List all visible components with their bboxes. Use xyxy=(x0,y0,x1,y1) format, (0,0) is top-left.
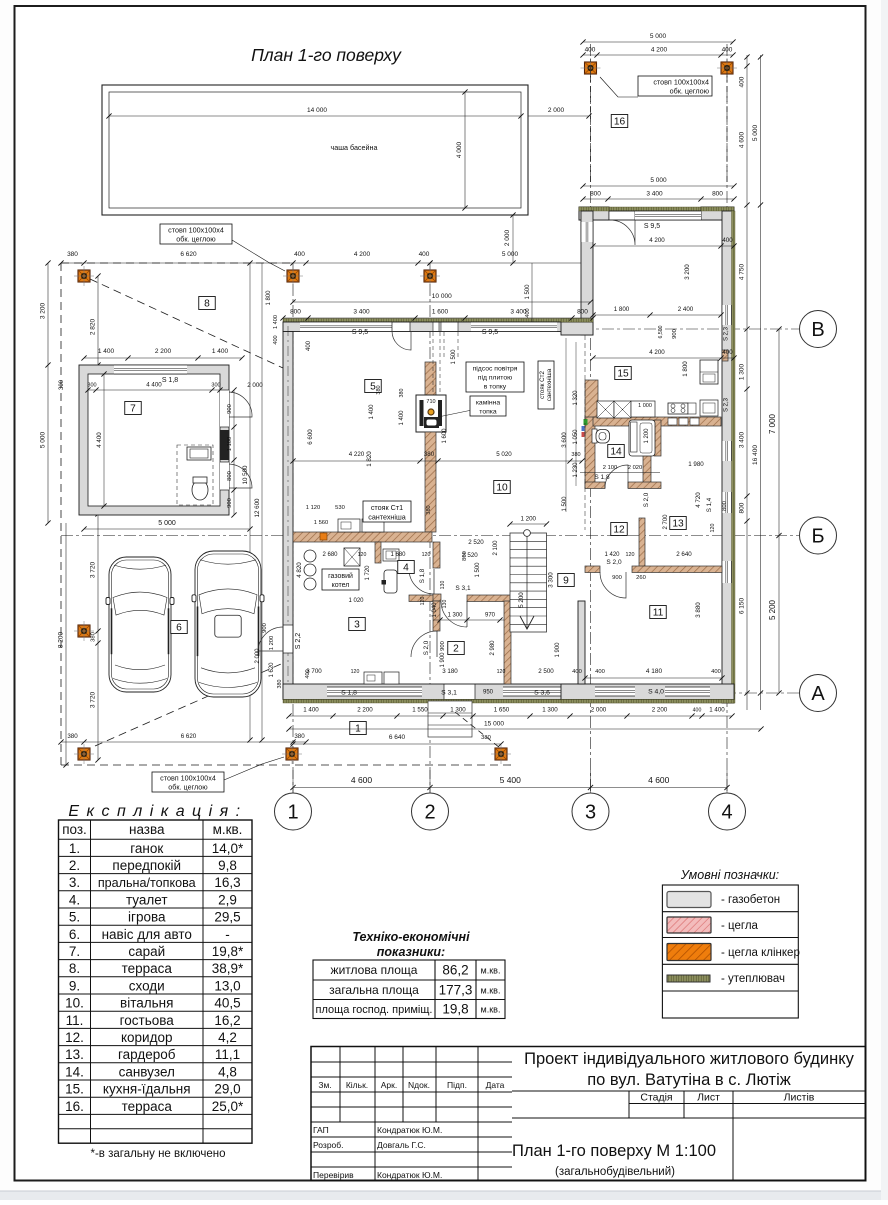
svg-text:поз.: поз. xyxy=(62,822,87,837)
svg-text:5 000: 5 000 xyxy=(650,33,667,40)
wall 14 right vertical upper xyxy=(654,420,661,456)
svg-text:терраса: терраса xyxy=(122,1099,173,1114)
wall 14-13 lower xyxy=(643,455,651,488)
fireplace unit xyxy=(416,395,446,432)
stairs newel circle xyxy=(524,530,531,537)
svg-text:1 400: 1 400 xyxy=(212,348,229,355)
svg-text:900: 900 xyxy=(227,404,233,414)
svg-text:16: 16 xyxy=(614,117,626,128)
svg-text:10 500: 10 500 xyxy=(242,465,249,484)
svg-text:6 620: 6 620 xyxy=(180,251,197,258)
svg-text:В: В xyxy=(811,319,824,341)
svg-text:4.: 4. xyxy=(69,892,80,907)
svg-text:Лист: Лист xyxy=(697,1092,720,1104)
dim 15 000 row xyxy=(289,728,761,730)
right dim 7000 5200 xyxy=(778,329,780,693)
svg-text:25,0*: 25,0* xyxy=(212,1099,244,1114)
svg-text:кухня-їдальня: кухня-їдальня xyxy=(103,1082,191,1097)
svg-text:14 000: 14 000 xyxy=(307,107,327,114)
column top left terrace xyxy=(74,266,94,286)
svg-text:3 720: 3 720 xyxy=(90,691,97,708)
svg-text:800: 800 xyxy=(290,309,301,316)
fireplace flue wall lower xyxy=(425,432,436,532)
svg-text:3: 3 xyxy=(585,802,596,824)
veranda 16 dashed outline xyxy=(590,76,592,185)
svg-text:1 400: 1 400 xyxy=(709,707,725,714)
stove room15 xyxy=(668,403,688,414)
pool dim 14 000 xyxy=(109,115,521,117)
stairs dim 1 200 xyxy=(510,523,547,525)
svg-text:стовп 100х100х4: стовп 100х100х4 xyxy=(653,78,709,87)
right top wall corner piers xyxy=(579,207,609,220)
svg-text:2 000: 2 000 xyxy=(504,229,511,246)
svg-text:8 200: 8 200 xyxy=(58,631,65,648)
top wall window 2 xyxy=(471,322,557,332)
bottom wall door S3.1 xyxy=(444,685,475,700)
svg-text:гардероб: гардероб xyxy=(118,1047,176,1062)
svg-text:15: 15 xyxy=(617,369,629,380)
svg-text:4,2: 4,2 xyxy=(218,1030,237,1045)
bottom wall left section xyxy=(283,684,593,700)
svg-text:1 820: 1 820 xyxy=(366,451,373,467)
column stovp veranda left xyxy=(581,58,601,78)
svg-text:вітальня: вітальня xyxy=(120,996,173,1011)
svg-text:S 3,1: S 3,1 xyxy=(441,690,457,697)
saray black jamb xyxy=(220,430,229,460)
svg-text:970: 970 xyxy=(485,613,496,619)
svg-text:800: 800 xyxy=(227,471,233,481)
svg-text:300: 300 xyxy=(87,383,96,389)
svg-text:туалет: туалет xyxy=(126,892,168,907)
room3 kitchen counters bottom xyxy=(364,672,382,684)
svg-text:-: - xyxy=(225,927,230,942)
toilet fixtures room4 xyxy=(383,549,399,561)
svg-text:380: 380 xyxy=(424,451,435,458)
svg-text:S 2,3: S 2,3 xyxy=(724,397,730,412)
top wall window 1 xyxy=(300,322,392,332)
svg-text:400: 400 xyxy=(722,237,733,244)
svg-text:10: 10 xyxy=(496,483,508,494)
svg-text:S 3,1: S 3,1 xyxy=(455,585,471,592)
svg-text:Перевірив: Перевірив xyxy=(313,1170,354,1180)
toilet room 4 walls xyxy=(375,542,381,563)
saray door arc S2.9 xyxy=(229,392,252,417)
svg-text:навіс для авто: навіс для авто xyxy=(102,927,192,942)
svg-text:1 200: 1 200 xyxy=(269,636,275,651)
svg-text:1 040: 1 040 xyxy=(432,602,438,618)
bottom wall window S1.8 xyxy=(327,687,422,696)
dim row 4220 380 5020 380 xyxy=(293,460,582,462)
svg-text:400: 400 xyxy=(572,669,582,675)
fridge room15 xyxy=(700,360,718,384)
svg-text:показники:: показники: xyxy=(377,945,445,959)
stoyak st2 label xyxy=(538,361,554,409)
room3 door arc S2.0 xyxy=(411,631,437,657)
svg-text:S 2,0: S 2,0 xyxy=(606,559,622,566)
svg-text:4 180: 4 180 xyxy=(646,668,663,675)
svg-text:1 900: 1 900 xyxy=(440,652,446,668)
svg-text:6,500: 6,500 xyxy=(658,325,664,338)
column top axis1 xyxy=(283,266,303,286)
terrace diagonal dashed bottom xyxy=(95,660,290,746)
explication table xyxy=(59,820,253,1143)
green mark shaft xyxy=(584,419,588,425)
right top wall window xyxy=(635,211,701,220)
svg-text:S 2,0: S 2,0 xyxy=(643,492,650,507)
svg-text:А: А xyxy=(811,683,825,705)
saray sink xyxy=(187,447,211,460)
counter right room15 xyxy=(700,400,718,416)
svg-text:2 020: 2 020 xyxy=(628,465,643,471)
svg-text:Умовні позначки:: Умовні позначки: xyxy=(680,868,779,882)
room 16 number xyxy=(611,115,628,128)
svg-text:1 600: 1 600 xyxy=(442,428,448,444)
svg-text:4 200: 4 200 xyxy=(354,251,371,258)
right bottom window 2 xyxy=(665,687,710,696)
bottom wall olive band xyxy=(283,700,734,704)
dim row 6620 bottom xyxy=(61,741,306,743)
room 15 number xyxy=(615,367,632,380)
room 2 number xyxy=(448,642,465,655)
svg-text:м.кв.: м.кв. xyxy=(481,966,501,976)
svg-text:1 400: 1 400 xyxy=(369,404,375,420)
svg-text:3.: 3. xyxy=(69,875,80,890)
svg-text:2 200: 2 200 xyxy=(357,707,373,714)
room15 dims xyxy=(593,245,734,247)
svg-text:2 700: 2 700 xyxy=(663,514,669,530)
svg-text:S 2,3: S 2,3 xyxy=(724,326,730,341)
right wall brick block xyxy=(722,350,728,361)
svg-text:40,5: 40,5 xyxy=(214,996,240,1011)
svg-text:ігрова: ігрова xyxy=(128,910,166,925)
terrace dim row top 380 6620 400 4200 400 xyxy=(61,262,430,264)
svg-text:(загальнобудівельний): (загальнобудівельний) xyxy=(555,1166,675,1178)
vent boxes in wall xyxy=(668,418,677,425)
svg-text:План 1-го поверху: План 1-го поверху xyxy=(251,45,402,65)
svg-text:1 650: 1 650 xyxy=(494,707,510,714)
label stovp top left xyxy=(160,224,232,244)
svg-text:5 000: 5 000 xyxy=(650,177,667,184)
room 13 number xyxy=(670,517,687,530)
label stovp 100x100x4 top right xyxy=(638,76,712,96)
svg-text:S 1,8: S 1,8 xyxy=(419,568,426,583)
svg-text:16,3: 16,3 xyxy=(214,875,240,890)
svg-text:1 500: 1 500 xyxy=(525,284,531,300)
svg-text:сарай: сарай xyxy=(128,944,165,959)
svg-text:1 600: 1 600 xyxy=(432,309,449,316)
pool basin outer xyxy=(102,85,528,215)
svg-text:м.кв.: м.кв. xyxy=(213,822,243,837)
svg-text:S 9,5: S 9,5 xyxy=(644,223,660,230)
svg-text:терраса: терраса xyxy=(122,961,173,976)
svg-text:380: 380 xyxy=(294,733,305,740)
room 14 number xyxy=(608,445,625,458)
right wall window 3 xyxy=(722,492,732,513)
svg-text:3 400: 3 400 xyxy=(353,309,370,316)
right section bottom wall xyxy=(561,684,734,700)
svg-text:19,8*: 19,8* xyxy=(212,944,244,959)
room11 door arc xyxy=(600,572,626,598)
partition room3-room2 mid xyxy=(433,594,441,601)
svg-text:1 300: 1 300 xyxy=(447,613,463,619)
svg-text:стовп 100х100х4: стовп 100х100х4 xyxy=(168,226,224,235)
svg-text:5 400: 5 400 xyxy=(500,775,522,785)
svg-text:3 880: 3 880 xyxy=(695,602,702,618)
svg-text:газовий: газовий xyxy=(328,572,353,580)
carport number 6 xyxy=(171,621,188,634)
svg-text:4 600: 4 600 xyxy=(351,775,373,785)
svg-text:2 000: 2 000 xyxy=(247,382,263,389)
svg-text:16,2: 16,2 xyxy=(214,1013,240,1028)
axis circle 2 xyxy=(412,793,449,830)
svg-text:6 600: 6 600 xyxy=(307,429,314,445)
svg-text:- цегла клінкер: - цегла клінкер xyxy=(721,947,800,959)
svg-text:800: 800 xyxy=(577,309,588,316)
svg-text:2 400: 2 400 xyxy=(678,306,694,313)
svg-text:4 200: 4 200 xyxy=(649,237,665,244)
gazoviy kotel label xyxy=(322,569,359,590)
svg-text:7: 7 xyxy=(130,404,136,415)
room 5 number xyxy=(365,380,382,393)
svg-text:5 200: 5 200 xyxy=(768,599,777,620)
svg-text:950: 950 xyxy=(483,690,494,696)
svg-text:коридор: коридор xyxy=(121,1030,173,1045)
kitchen cabinets X room15 xyxy=(597,401,614,418)
svg-text:Е к с п л і к а ц і я :: Е к с п л і к а ц і я : xyxy=(68,803,241,820)
axis line 4 vertical xyxy=(726,44,728,793)
saray door arc S1.8 lower xyxy=(229,464,252,488)
dim row above saray 1400 2200 1400 xyxy=(84,357,242,359)
svg-text:S 3,6: S 3,6 xyxy=(534,690,550,697)
svg-text:1 560: 1 560 xyxy=(314,520,329,526)
svg-text:Проект індивідуального житлово: Проект індивідуального житлового будинку xyxy=(524,1050,855,1068)
svg-text:380: 380 xyxy=(481,735,491,741)
svg-text:2 640: 2 640 xyxy=(676,551,692,558)
svg-text:1 800: 1 800 xyxy=(266,290,272,306)
svg-text:1 200: 1 200 xyxy=(644,428,650,444)
svg-text:пральна/топкова: пральна/топкова xyxy=(98,876,196,890)
kaminna topka box xyxy=(470,396,506,416)
svg-text:3 300: 3 300 xyxy=(548,572,555,588)
svg-text:S 1,4: S 1,4 xyxy=(706,497,713,512)
svg-text:120: 120 xyxy=(710,524,716,533)
shaft wall left of 14 xyxy=(585,380,598,418)
svg-text:530: 530 xyxy=(335,505,345,511)
svg-text:2 980: 2 980 xyxy=(490,640,496,656)
dim 1500 400 between pool and house xyxy=(531,263,533,322)
svg-text:1 980: 1 980 xyxy=(688,461,704,468)
svg-text:10 000: 10 000 xyxy=(432,293,452,300)
svg-text:710: 710 xyxy=(426,399,435,405)
svg-text:2: 2 xyxy=(453,644,459,655)
svg-text:400: 400 xyxy=(419,251,430,258)
terrace number 8 xyxy=(199,297,216,310)
wall 12/13 vertical xyxy=(639,518,645,567)
svg-text:5 000: 5 000 xyxy=(752,124,759,141)
svg-text:Б: Б xyxy=(811,526,824,548)
svg-text:400: 400 xyxy=(273,335,279,344)
dims 10500 12600 xyxy=(249,263,251,740)
svg-text:2,9: 2,9 xyxy=(218,892,237,907)
svg-text:2: 2 xyxy=(424,802,435,824)
column mid left xyxy=(74,621,94,641)
right wall window 2 xyxy=(722,441,732,461)
dim 5 000 top axis2-3 xyxy=(430,262,590,264)
svg-text:2 200: 2 200 xyxy=(652,707,668,714)
column bottom x501 xyxy=(491,744,511,764)
svg-text:3 720: 3 720 xyxy=(90,561,97,578)
svg-text:2 100: 2 100 xyxy=(603,465,618,471)
svg-text:ганок: ганок xyxy=(130,841,163,856)
left wall window xyxy=(581,222,593,242)
svg-text:1 800: 1 800 xyxy=(614,306,630,313)
svg-text:- цегла: - цегла xyxy=(721,920,759,932)
svg-text:11,1: 11,1 xyxy=(215,1047,240,1062)
svg-text:топка: топка xyxy=(479,409,497,416)
svg-text:12 600: 12 600 xyxy=(254,498,261,517)
svg-text:2.: 2. xyxy=(69,858,80,873)
wall marks colored xyxy=(582,426,585,431)
svg-text:400: 400 xyxy=(294,251,305,258)
room 11 number xyxy=(650,606,667,619)
svg-text:Nдок.: Nдок. xyxy=(408,1080,430,1090)
fireplace leader to label xyxy=(438,410,472,417)
pool dim 4 000 vertical xyxy=(464,92,466,208)
saray walls outer xyxy=(79,365,229,515)
svg-text:під плитою: під плитою xyxy=(478,374,512,382)
svg-text:1 500: 1 500 xyxy=(475,562,481,578)
svg-text:площа господ. приміщ.: площа господ. приміщ. xyxy=(316,1004,433,1016)
svg-text:4,8: 4,8 xyxy=(218,1064,237,1079)
room 10 number xyxy=(494,481,511,494)
svg-text:1 420: 1 420 xyxy=(604,552,620,558)
legend swatch tsegla xyxy=(667,917,711,933)
svg-text:29,5: 29,5 xyxy=(214,910,240,925)
left dim col x98 xyxy=(97,276,99,365)
svg-text:800: 800 xyxy=(590,191,601,198)
svg-text:5 000: 5 000 xyxy=(502,251,519,258)
right section left wall xyxy=(581,211,593,335)
terrace diagonal dashed top xyxy=(90,279,283,368)
axis line V horizontal xyxy=(560,328,799,330)
svg-text:10.: 10. xyxy=(65,996,84,1011)
svg-text:4 600: 4 600 xyxy=(739,131,746,148)
svg-text:1 680: 1 680 xyxy=(390,552,406,558)
axis circle 1 xyxy=(275,793,312,830)
left wall of house xyxy=(283,332,293,699)
counter mid room15 xyxy=(631,401,655,417)
svg-text:3 600: 3 600 xyxy=(561,432,568,448)
svg-text:1 800: 1 800 xyxy=(682,361,689,377)
stairs down arrow xyxy=(526,536,528,628)
dashed diag to column 501 xyxy=(455,712,500,748)
svg-text:5 000: 5 000 xyxy=(158,520,176,527)
svg-text:13.: 13. xyxy=(65,1047,84,1062)
svg-text:29,0: 29,0 xyxy=(214,1082,240,1097)
svg-text:2 820: 2 820 xyxy=(90,318,97,335)
svg-text:1 300: 1 300 xyxy=(450,707,466,714)
svg-text:380: 380 xyxy=(67,251,78,258)
svg-text:4: 4 xyxy=(721,802,732,824)
bottom dim row small xyxy=(289,715,732,717)
svg-text:S 9,5: S 9,5 xyxy=(352,329,368,336)
saray bottom dim 5 000 xyxy=(84,528,250,530)
veranda dim 5 000 top xyxy=(583,41,733,43)
room14 door arc xyxy=(605,465,628,488)
svg-text:300: 300 xyxy=(59,379,65,390)
svg-text:S 1,8: S 1,8 xyxy=(162,377,178,384)
svg-text:1 020: 1 020 xyxy=(348,598,364,604)
svg-text:передпокій: передпокій xyxy=(112,858,181,873)
svg-text:120: 120 xyxy=(497,669,506,675)
bottom wall window S3.6 xyxy=(503,687,565,696)
svg-text:S 2,0: S 2,0 xyxy=(423,640,430,655)
svg-text:300: 300 xyxy=(211,383,220,389)
svg-text:1 230: 1 230 xyxy=(573,462,579,478)
svg-text:котел: котел xyxy=(332,582,350,589)
svg-text:2 000: 2 000 xyxy=(255,648,261,664)
svg-text:3 200: 3 200 xyxy=(684,264,691,280)
svg-text:камінна: камінна xyxy=(476,399,501,407)
veranda dim 5 000 bottom xyxy=(583,185,734,187)
svg-text:5 000: 5 000 xyxy=(40,431,47,448)
svg-text:1 400: 1 400 xyxy=(273,315,279,329)
svg-text:- утеплювач: - утеплювач xyxy=(721,973,785,985)
svg-text:1 720: 1 720 xyxy=(365,565,371,581)
svg-text:12: 12 xyxy=(613,525,625,536)
svg-text:16.: 16. xyxy=(65,1099,84,1114)
right dim 16 400 xyxy=(760,205,762,710)
svg-text:380: 380 xyxy=(91,632,97,642)
legend swatch uteplyuvach xyxy=(667,975,710,982)
room2 top wall xyxy=(467,595,511,602)
porch number 1 xyxy=(350,722,367,735)
svg-text:Стадія: Стадія xyxy=(640,1092,672,1104)
saray right wall openings xyxy=(220,390,229,427)
kitchen counter fixtures xyxy=(338,519,360,532)
label stovp bottom left xyxy=(152,772,224,792)
partition room3-room2 upper xyxy=(433,542,440,568)
column top axis2 xyxy=(420,266,440,286)
fireplace flue wall upper xyxy=(425,362,436,397)
svg-text:15.: 15. xyxy=(65,1082,84,1097)
svg-text:8: 8 xyxy=(204,299,210,310)
svg-text:120: 120 xyxy=(420,597,426,606)
svg-text:обк. цеглою: обк. цеглою xyxy=(168,783,208,792)
svg-text:Кондратюк Ю.М.: Кондратюк Ю.М. xyxy=(377,1125,442,1135)
stoyak st1 label xyxy=(363,501,411,522)
left wall center dash xyxy=(287,326,289,682)
column stovp veranda right xyxy=(717,58,737,78)
svg-text:м.кв.: м.кв. xyxy=(481,985,501,995)
svg-text:260: 260 xyxy=(636,575,646,581)
svg-text:4 750: 4 750 xyxy=(739,263,746,280)
saray toilet xyxy=(192,480,208,500)
svg-text:1 400: 1 400 xyxy=(303,707,319,714)
axis circle V xyxy=(800,311,837,348)
svg-text:1 400: 1 400 xyxy=(98,348,115,355)
dim 2 000 vertical below pool xyxy=(512,215,514,263)
svg-text:380: 380 xyxy=(67,733,78,740)
room 4 number xyxy=(398,561,415,574)
title block frame xyxy=(311,1047,866,1181)
axis circle A xyxy=(800,675,837,712)
svg-text:3: 3 xyxy=(354,620,360,631)
left section top wall olive band xyxy=(283,319,593,323)
svg-text:3 400: 3 400 xyxy=(739,431,746,448)
axis circle 4 xyxy=(709,793,746,830)
svg-text:380: 380 xyxy=(399,389,405,398)
